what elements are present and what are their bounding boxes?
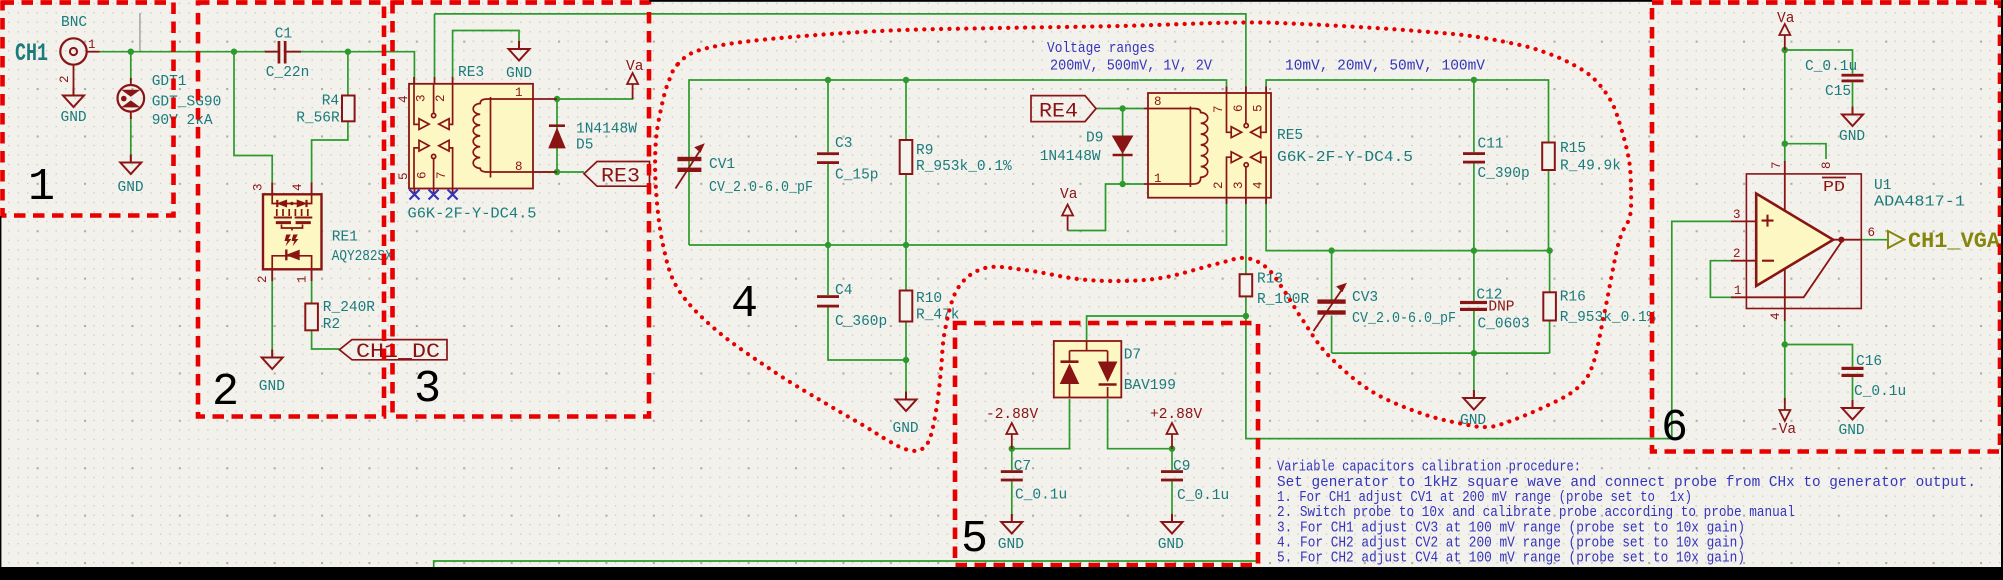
svg-text:1N4148W: 1N4148W: [576, 122, 637, 138]
global label RE4: [1031, 96, 1096, 124]
diode D5 1N4148W: [549, 126, 565, 148]
svg-text:RE3: RE3: [601, 166, 640, 189]
ground under C7: [1001, 514, 1022, 534]
svg-text:3: 3: [414, 364, 441, 415]
wire R4 bottom to RE1 pin4: [312, 121, 348, 193]
svg-text:8: 8: [1820, 161, 1834, 169]
RE3 pin stubs: [414, 77, 557, 195]
svg-text:R2: R2: [323, 317, 340, 333]
svg-text:C7: C7: [1014, 459, 1031, 475]
RE1 internals: [272, 194, 312, 230]
wire RE5 right bottom rail: [1266, 199, 1550, 251]
svg-text:D7: D7: [1124, 348, 1141, 364]
wire C15 to GND: [1852, 82, 1854, 113]
resistor R16: [1543, 292, 1556, 320]
svg-text:G6K-2F-Y-DC4.5: G6K-2F-Y-DC4.5: [408, 207, 537, 223]
ground under C16: [1842, 400, 1863, 420]
RE1 LED and arrows: [272, 235, 311, 270]
RE3 upper contact: [414, 84, 453, 130]
svg-text:200mV, 500mV, 1V, 2V: 200mV, 500mV, 1V, 2V: [1050, 59, 1212, 75]
svg-text:G6K-2F-Y-DC4.5: G6K-2F-Y-DC4.5: [1277, 150, 1413, 166]
black canvas borders: [0, 567, 2003, 580]
svg-text:1: 1: [515, 86, 523, 100]
svg-text:GND: GND: [893, 421, 919, 437]
svg-text:C11: C11: [1478, 137, 1504, 153]
capacitor C12 DNP: [1460, 301, 1487, 311]
U1 pin4 line: [1784, 245, 1786, 321]
svg-text:4: 4: [731, 279, 758, 330]
svg-text:CV_2.0-6.0_pF: CV_2.0-6.0_pF: [709, 180, 813, 196]
global label CH1_DC: [339, 340, 447, 364]
svg-text:GND: GND: [1460, 413, 1486, 429]
svg-text:C_0603: C_0603: [1478, 317, 1530, 333]
U1 plus minus: [1762, 215, 1775, 261]
wire R10 branch: [905, 245, 907, 291]
ground under C15: [1842, 107, 1863, 127]
op-amp U1 ADA4817-1 unit box: [1746, 174, 1861, 309]
capacitor C11: [1463, 152, 1485, 163]
svg-text:3. For CH1 adjust CV3 at 100 m: 3. For CH1 adjust CV3 at 100 mV range (p…: [1277, 520, 1745, 536]
wire C9 branch: [1171, 449, 1173, 471]
resistor R13: [1240, 274, 1253, 296]
RE3 lower contact: [414, 140, 453, 188]
wire Va branch to U1 pin8: [1785, 144, 1826, 159]
svg-text:R16: R16: [1560, 290, 1586, 306]
resistor R2: [305, 304, 318, 331]
ground under GDT1: [120, 155, 141, 175]
svg-text:1: 1: [295, 275, 309, 283]
diode D7 BAV199 body: [1054, 341, 1122, 398]
svg-text:+2.88V: +2.88V: [1150, 407, 1203, 423]
svg-text:Va: Va: [1060, 187, 1078, 203]
svg-text:6: 6: [416, 171, 430, 179]
svg-text:2: 2: [1733, 247, 1741, 261]
wire RE5 right top rail: [1266, 80, 1548, 143]
wire RE3 pin2 to GND: [453, 31, 519, 79]
svg-text:GND: GND: [998, 537, 1024, 553]
svg-text:5: 5: [1252, 104, 1266, 112]
svg-text:1: 1: [88, 38, 96, 52]
wire region4 right lower rail: [1332, 352, 1550, 354]
svg-text:Set generator to 1kHz square w: Set generator to 1kHz square wave and co…: [1277, 475, 1976, 491]
global label RE3: [584, 162, 650, 189]
power -Va arrow down: [1779, 398, 1790, 421]
wire R15 bottom: [1548, 170, 1550, 251]
relay RE5 G6K-2F-Y body: [1148, 93, 1271, 198]
wire RE5 pin1 to Va: [1068, 184, 1144, 231]
svg-text:1. For CH1 adjust CV1 at 200 m: 1. For CH1 adjust CV1 at 200 mV range (p…: [1277, 490, 1692, 506]
relay RE3 G6K-2F-Y body: [409, 84, 533, 189]
svg-text:C1: C1: [275, 27, 292, 43]
resistor R4: [342, 96, 355, 122]
svg-text:C16: C16: [1856, 354, 1882, 370]
svg-text:D5: D5: [576, 138, 593, 154]
svg-text:R_100R: R_100R: [1257, 292, 1310, 308]
capacitor C16: [1842, 367, 1864, 377]
pin 1 RE1: [311, 269, 313, 281]
region box 3: [393, 3, 650, 417]
wire D5 vertical: [556, 99, 558, 172]
svg-text:4. For CH2 adjust CV2 at 200 m: 4. For CH2 adjust CV2 at 200 mV range (p…: [1277, 536, 1745, 552]
wire bottom long net: [434, 561, 1258, 568]
region blob 4 dotted: [655, 22, 1631, 450]
wire U1 pin4 down: [1784, 321, 1786, 404]
capacitor C9: [1161, 470, 1183, 481]
svg-text:Va: Va: [1777, 11, 1795, 27]
svg-text:C15: C15: [1825, 84, 1851, 100]
svg-text:8: 8: [515, 160, 523, 174]
ground under C9: [1162, 514, 1183, 534]
svg-text:-2.88V: -2.88V: [986, 407, 1039, 423]
svg-text:GND: GND: [61, 110, 87, 126]
svg-text:GND: GND: [506, 66, 532, 82]
wire RE1 pin2 to GND: [271, 270, 273, 356]
svg-text:4: 4: [291, 183, 305, 191]
ground under RE1: [262, 350, 283, 370]
wire C7 branch: [1011, 449, 1013, 471]
svg-text:RE1: RE1: [332, 230, 358, 246]
svg-text:C4: C4: [835, 283, 852, 299]
wire C3 branch: [827, 80, 829, 152]
wire branch to RE1 pin3: [234, 52, 272, 193]
wire R2 to CH1_DC label: [312, 330, 340, 349]
ground under BNC: [63, 88, 84, 108]
wire GND branch C12: [1473, 353, 1475, 396]
region box 6: [1652, 3, 2000, 452]
wire R13 bottom to junction: [1245, 296, 1247, 316]
RE5 pin stubs: [1144, 87, 1266, 205]
wire Va to C15: [1785, 50, 1853, 74]
svg-text:10mV, 20mV, 50mV, 100mV: 10mV, 20mV, 50mV, 100mV: [1285, 59, 1485, 75]
svg-text:R_953k_0.1%: R_953k_0.1%: [916, 159, 1012, 175]
svg-text:GDT_SG90: GDT_SG90: [152, 95, 222, 111]
svg-text:CV_2.0-6.0_pF: CV_2.0-6.0_pF: [1352, 311, 1456, 327]
hierarchical label CH1_VGA: [1888, 229, 2001, 254]
variable capacitor CV3: [1314, 283, 1348, 331]
svg-text:CV3: CV3: [1352, 290, 1378, 306]
RE5 upper contact: [1227, 93, 1267, 138]
wire region4 left bottom rail: [689, 199, 1227, 245]
svg-text:GND: GND: [1839, 423, 1865, 439]
svg-text:6: 6: [1232, 104, 1246, 112]
svg-text:2: 2: [1212, 181, 1226, 189]
power Va at RE3: [627, 73, 638, 99]
wire RE1 pin1 to R2: [311, 270, 313, 304]
svg-text:7: 7: [435, 171, 449, 179]
wire RE5 pin3 to R13: [1245, 199, 1247, 274]
svg-text:3: 3: [415, 94, 429, 102]
wire RE4 label to RE5 pin8: [1096, 108, 1144, 110]
wire C1 right to R4: [347, 52, 349, 96]
resistor R15: [1542, 143, 1555, 171]
svg-text:2: 2: [212, 367, 239, 418]
svg-text:6: 6: [1868, 226, 1876, 240]
RE3 coil: [473, 97, 533, 178]
ground at RE3 pin2: [509, 41, 530, 61]
svg-text:RE3: RE3: [458, 65, 484, 81]
redraw top dashes over black line: [3, 0, 2001, 5]
svg-text:5. For CH2 adjust CV4 at 100 m: 5. For CH2 adjust CV4 at 100 mV range (p…: [1277, 551, 1745, 567]
svg-text:R15: R15: [1560, 141, 1586, 157]
svg-text:R10: R10: [916, 291, 942, 307]
svg-text:-Va: -Va: [1770, 422, 1796, 438]
connector CH1 BNC J: [60, 38, 99, 95]
variable capacitor CV1: [676, 143, 705, 188]
wire GDT1 top: [130, 52, 132, 82]
svg-text:R_953k_0.1%: R_953k_0.1%: [1560, 310, 1656, 326]
wire GDT1 bottom to GND: [130, 114, 132, 161]
svg-text:C_0.1u: C_0.1u: [1177, 488, 1229, 504]
resistor R10: [900, 291, 913, 322]
svg-text:4: 4: [1769, 312, 1783, 320]
svg-text:GND: GND: [259, 379, 285, 395]
svg-text:3: 3: [1733, 208, 1741, 222]
wire D7 left pin to -2.88V: [1012, 399, 1070, 449]
power +2.88V: [1167, 423, 1178, 449]
svg-text:4: 4: [397, 95, 411, 103]
svg-text:GDT1: GDT1: [152, 74, 187, 90]
U1 pin7 line: [1784, 161, 1786, 235]
svg-text:GND: GND: [1839, 129, 1865, 145]
svg-text:R_240R: R_240R: [323, 300, 376, 316]
pin 4 RE1: [311, 183, 313, 195]
svg-text:BNC: BNC: [61, 15, 87, 31]
wire D9 vertical: [1122, 109, 1124, 185]
capacitor C7: [1001, 470, 1023, 481]
svg-text:D9: D9: [1086, 131, 1103, 147]
gas discharge tube GDT1: [118, 78, 145, 119]
svg-text:R_56R: R_56R: [296, 111, 340, 127]
wire R16 branch: [1549, 251, 1551, 293]
svg-text:U1: U1: [1874, 178, 1891, 194]
svg-text:Va: Va: [626, 59, 644, 75]
wire RE3 pin3 riser: [434, 14, 436, 77]
svg-text:CH1_VGA: CH1_VGA: [1908, 229, 2001, 254]
svg-text:RE4: RE4: [1039, 101, 1078, 124]
svg-text:5: 5: [961, 514, 988, 565]
wire junction down to U1 pin3 net: [1246, 221, 1731, 438]
svg-text:C_15p: C_15p: [835, 168, 879, 184]
U1 pins: [1731, 221, 1861, 297]
svg-text:DNP: DNP: [1488, 300, 1514, 316]
cursor artifact line: [139, 13, 141, 51]
region box 5: [955, 323, 1258, 565]
svg-text:R4: R4: [322, 94, 339, 110]
capacitor C4: [817, 295, 839, 307]
wire C12 branch: [1473, 251, 1475, 301]
RE5 lower contact: [1227, 152, 1267, 198]
svg-text:2: 2: [434, 94, 448, 102]
svg-text:ADA4817-1: ADA4817-1: [1874, 195, 1965, 211]
region box 2: [198, 3, 384, 417]
svg-text:C_0.1u: C_0.1u: [1854, 384, 1906, 400]
relay RE1 AQY282SX body: [263, 194, 322, 269]
wire D7 right pin to +2.88V: [1108, 399, 1172, 449]
wire U1 output to CH1_VGA: [1861, 239, 1888, 241]
svg-text:C_0.1u: C_0.1u: [1805, 59, 1857, 75]
capacitor C3: [817, 152, 839, 164]
power Va at RE5 pin1: [1062, 205, 1073, 231]
wire RE3 pin8 to RE3 label: [533, 171, 584, 173]
svg-text:CH1: CH1: [15, 39, 48, 68]
svg-text:7: 7: [1212, 105, 1226, 113]
U1 triangle: [1756, 194, 1833, 286]
ground region4 right: [1463, 390, 1484, 410]
capacitor C15: [1842, 74, 1864, 83]
svg-text:C3: C3: [835, 136, 852, 152]
svg-text:CH1_DC: CH1_DC: [356, 341, 440, 364]
wire Va rail above U1: [1784, 50, 1786, 162]
pin 2 RE1: [271, 269, 273, 281]
svg-text:C_0.1u: C_0.1u: [1015, 488, 1067, 504]
svg-text:C_390p: C_390p: [1478, 166, 1530, 182]
region box 1: [3, 3, 174, 216]
RE5 coil: [1148, 107, 1208, 188]
svg-text:Variable capacitors calibratio: Variable capacitors calibration procedur…: [1277, 460, 1581, 476]
wire junction to D7: [1087, 316, 1246, 340]
wire long top net to RE5 pin6: [435, 14, 1246, 92]
svg-text:7: 7: [1770, 161, 1784, 169]
wire C16 to GND: [1852, 377, 1854, 406]
svg-text:3: 3: [1232, 181, 1246, 189]
svg-text:8: 8: [1154, 95, 1162, 109]
capacitor C1: [265, 41, 301, 64]
svg-text:PD: PD: [1823, 180, 1845, 196]
svg-text:1: 1: [1734, 284, 1742, 298]
svg-text:3: 3: [252, 183, 266, 191]
wire R9 branch: [905, 80, 907, 140]
wire region4 left top rail: [689, 80, 1227, 245]
svg-text:4: 4: [1252, 181, 1266, 189]
svg-text:GND: GND: [1158, 537, 1184, 553]
wire C11 branch: [1473, 80, 1475, 152]
svg-text:5: 5: [397, 172, 411, 180]
svg-text:C_360p: C_360p: [835, 314, 887, 330]
svg-text:Voltage ranges: Voltage ranges: [1047, 41, 1155, 57]
power -2.88V: [1006, 423, 1017, 449]
diode D9 1N4148W: [1113, 136, 1133, 155]
pin 3 RE1: [271, 183, 273, 195]
wire CH1 main to RE3 pin4: [99, 51, 278, 53]
wire C4 branch: [827, 245, 829, 295]
svg-text:R9: R9: [916, 143, 933, 159]
svg-text:2: 2: [58, 75, 72, 83]
power Va above U1: [1779, 24, 1790, 50]
svg-text:GND: GND: [118, 180, 144, 196]
ground region4 left: [896, 392, 917, 412]
svg-text:90V 2kA: 90V 2kA: [152, 113, 213, 129]
wire CV3 branch: [1331, 251, 1333, 300]
wire U1 pin2 feedback loop: [1710, 261, 1731, 298]
svg-text:2: 2: [256, 275, 270, 283]
wire RE3 pin1 to Va: [557, 98, 633, 99]
svg-text:BAV199: BAV199: [1124, 378, 1176, 394]
resistor R9: [900, 140, 913, 174]
D7 internals: [1061, 341, 1117, 398]
svg-text:6: 6: [1661, 403, 1688, 454]
svg-text:C9: C9: [1173, 459, 1190, 475]
no-connect X pins 5 6 7: [410, 190, 458, 200]
svg-text:1: 1: [28, 162, 55, 213]
svg-text:1: 1: [1154, 172, 1162, 186]
wire pin4 branch to C16: [1785, 345, 1853, 367]
svg-text:R_49.9k: R_49.9k: [1560, 159, 1621, 175]
svg-text:C_22n: C_22n: [266, 65, 310, 81]
svg-text:CV1: CV1: [709, 157, 735, 173]
svg-text:RE5: RE5: [1277, 128, 1303, 144]
svg-text:1N4148W: 1N4148W: [1040, 149, 1101, 165]
svg-text:2. Switch probe to 10x and cal: 2. Switch probe to 10x and calibrate pro…: [1277, 505, 1795, 521]
